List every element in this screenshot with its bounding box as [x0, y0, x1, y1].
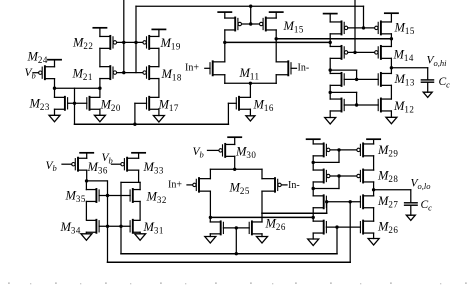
svg-text:In+: In+ — [185, 62, 199, 73]
svg-text:In+: In+ — [168, 179, 182, 190]
svg-text:In-: In- — [288, 180, 300, 191]
svg-text:In-: In- — [298, 62, 310, 73]
